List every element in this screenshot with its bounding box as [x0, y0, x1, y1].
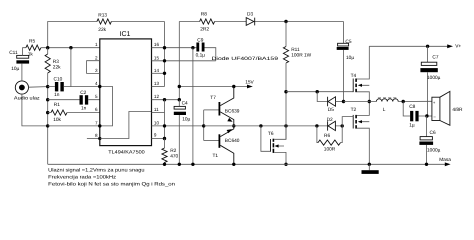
- 15V arrow: [245, 79, 254, 88]
- node T6 source gnd: [284, 163, 287, 166]
- resistor R13: [97, 12, 112, 32]
- wire column 193: [192, 48, 194, 165]
- svg-text:15: 15: [154, 55, 160, 60]
- wire gate row y92: [286, 91, 353, 93]
- svg-text:Fetovi-bilo koji N fet sa sto: Fetovi-bilo koji N fet sa sto manjim Qg …: [48, 181, 175, 187]
- pin numbers right: [154, 42, 160, 138]
- node R5/R3 junction: [46, 46, 49, 49]
- wire pin12 row: [152, 99, 180, 101]
- svg-text:2: 2: [95, 55, 98, 60]
- node C8 tap: [402, 100, 405, 103]
- node pin8 edge: [98, 137, 101, 140]
- svg-text:470: 470: [170, 154, 178, 160]
- transistor T1 BC640: [204, 126, 240, 164]
- svg-text:R8: R8: [201, 12, 207, 18]
- svg-text:4: 4: [95, 81, 98, 86]
- capacitor C7: [420, 46, 440, 116]
- speaker 4/8R: [432, 91, 463, 125]
- node pin7 row: [46, 124, 49, 127]
- svg-text:1n: 1n: [81, 105, 87, 111]
- svg-text:5: 5: [95, 94, 98, 99]
- diode D3: [246, 11, 255, 25]
- svg-text:R3: R3: [53, 59, 59, 65]
- node 193 gnd: [191, 163, 194, 166]
- svg-text:22k: 22k: [53, 65, 61, 71]
- capacitor C5: [337, 22, 355, 102]
- pin numbers left: [95, 42, 98, 138]
- node pin9: [163, 137, 166, 140]
- svg-text:TL494/KA7500: TL494/KA7500: [108, 149, 145, 155]
- node R1 left: [46, 111, 49, 114]
- svg-text:C6: C6: [430, 130, 436, 136]
- svg-text:13: 13: [154, 81, 160, 86]
- svg-text:C7: C7: [432, 54, 438, 60]
- capacitor C2: [80, 90, 89, 111]
- node D2 right: [341, 124, 344, 127]
- inductor L: [376, 98, 398, 113]
- svg-text:11: 11: [154, 107, 159, 112]
- node 286 drive: [284, 124, 287, 127]
- svg-text:3: 3: [95, 68, 98, 73]
- svg-text:Frekvencija rada =100kHz: Frekvencija rada =100kHz: [48, 175, 116, 181]
- transistor T6 mosfet: [261, 126, 286, 164]
- wire pin1 row: [41, 47, 100, 49]
- svg-text:10k: 10k: [53, 117, 61, 123]
- svg-text:D5: D5: [328, 107, 334, 113]
- wire right bracket 16-13: [164, 22, 166, 87]
- node pin7 edge: [98, 124, 101, 127]
- svg-text:7: 7: [95, 120, 98, 125]
- wire column 179 VCC: [178, 22, 180, 100]
- node bases: [202, 124, 205, 127]
- svg-text:15V: 15V: [245, 79, 254, 85]
- wire output row: [344, 100, 432, 102]
- svg-text:D2: D2: [327, 117, 333, 123]
- node C9 left: [191, 46, 194, 49]
- svg-text:T1: T1: [213, 153, 219, 159]
- capacitor C8: [403, 102, 432, 129]
- node pin12/164: [163, 98, 166, 101]
- svg-text:L: L: [383, 107, 386, 113]
- wire V+ rail: [369, 45, 448, 47]
- node pin16: [163, 46, 166, 49]
- svg-text:C9: C9: [197, 37, 203, 43]
- wire pin6 row: [48, 112, 100, 114]
- svg-text:1n: 1n: [54, 92, 60, 98]
- capacitor C4: [174, 100, 191, 165]
- svg-text:1k: 1k: [28, 51, 34, 57]
- node rail/R11: [284, 20, 287, 23]
- wire bases bracket: [203, 110, 205, 141]
- op-amp IC1 box TL494: [100, 31, 152, 155]
- node C4 gnd: [178, 163, 181, 166]
- wire top rail: [48, 22, 344, 48]
- wire audio shield to ground row: [22, 94, 48, 126]
- svg-text:100R: 100R: [324, 146, 336, 152]
- wire right bracket 12-9: [164, 100, 166, 139]
- wire audio pin to node: [29, 86, 48, 89]
- resistor R2: [162, 148, 179, 164]
- resistor R1: [51, 102, 67, 123]
- transistor T2 mosfet: [351, 102, 370, 165]
- transistor T4 mosfet: [351, 46, 370, 101]
- wire pin4 row: [48, 86, 100, 88]
- svg-text:1000µ: 1000µ: [427, 75, 441, 81]
- node C10 row: [46, 85, 49, 88]
- wire pin8 to pin11 inner: [100, 112, 152, 139]
- node T2 gnd: [368, 163, 371, 166]
- wire pin15 row: [152, 60, 216, 62]
- node T6 gate tap: [259, 124, 262, 127]
- svg-text:C5: C5: [345, 39, 351, 45]
- node pin1/C10 riser: [69, 46, 72, 49]
- svg-text:1µ: 1µ: [409, 122, 415, 128]
- wire pin13 stub: [152, 86, 165, 88]
- resistor R8: [200, 12, 215, 33]
- wire C11 to R5: [23, 48, 26, 56]
- resistor R5: [26, 38, 41, 57]
- node R11 bottom: [284, 90, 287, 93]
- text notes: [48, 168, 175, 188]
- node pin15: [163, 59, 166, 62]
- resistor R11: [283, 22, 311, 64]
- wire C9 right riser to pin15: [205, 48, 216, 61]
- wire ground rail: [48, 163, 446, 165]
- svg-text:T6: T6: [268, 131, 274, 137]
- wire D5 riser: [317, 92, 327, 102]
- svg-text:2R2: 2R2: [200, 26, 209, 32]
- audio ulaz connector: [14, 81, 40, 102]
- svg-text:D3: D3: [247, 11, 253, 17]
- wire pin14 stub: [152, 72, 165, 74]
- svg-text:100R 1W: 100R 1W: [291, 52, 311, 58]
- svg-text:BC640: BC640: [225, 138, 240, 144]
- svg-text:8: 8: [95, 133, 98, 138]
- svg-text:−: −: [433, 114, 436, 119]
- node T1 gnd: [232, 163, 235, 166]
- svg-text:R13: R13: [98, 12, 107, 18]
- svg-text:Audio ulaz: Audio ulaz: [14, 95, 40, 101]
- svg-text:C11: C11: [9, 50, 18, 56]
- svg-text:10: 10: [154, 120, 160, 125]
- wire pin2-pin3 loop: [87, 61, 100, 74]
- node output/C5/D5: [342, 100, 345, 103]
- svg-text:T4: T4: [351, 73, 357, 79]
- wire audio top to C11: [21, 64, 23, 81]
- wire pin8 row: [87, 138, 100, 140]
- capacitor C11: [9, 50, 29, 72]
- node C7 top: [426, 45, 429, 48]
- svg-text:10µ: 10µ: [11, 66, 19, 72]
- node D2 left: [315, 124, 318, 127]
- svg-text:16: 16: [154, 42, 160, 47]
- svg-text:Diode UF4007/BA159: Diode UF4007/BA159: [212, 56, 279, 62]
- transistor T7 BC639: [204, 87, 240, 126]
- wire pin4-pin7 inner loop: [100, 87, 113, 126]
- svg-text:IC1: IC1: [120, 31, 131, 38]
- wire pin11 stub: [152, 112, 165, 114]
- svg-text:T7: T7: [210, 95, 216, 101]
- svg-text:C4: C4: [182, 101, 188, 107]
- svg-text:Masa: Masa: [439, 157, 451, 163]
- node pin12/C4: [178, 98, 181, 101]
- node emitters: [232, 124, 235, 127]
- V+ arrow: [447, 43, 461, 49]
- svg-text:C10: C10: [54, 77, 63, 83]
- node T7 collector top: [232, 85, 235, 88]
- svg-text:R11: R11: [291, 47, 300, 53]
- capacitor C6: [419, 116, 440, 164]
- wire riser x70.9: [70, 48, 72, 87]
- wire T2 gate riser: [342, 117, 353, 126]
- node pin10/164: [163, 124, 166, 127]
- wire pin10 row to bases: [152, 125, 204, 127]
- node pin14: [163, 72, 166, 75]
- wire pin9 to R2: [164, 139, 166, 149]
- resistor R3: [45, 54, 61, 73]
- node C6 gnd: [425, 163, 428, 166]
- svg-text:10µ: 10µ: [182, 116, 190, 122]
- svg-text:C2: C2: [80, 90, 86, 96]
- svg-text:4/8R: 4/8R: [452, 107, 463, 113]
- capacitor C10: [54, 77, 64, 99]
- node output T4/T2: [368, 100, 371, 103]
- wire left column: [47, 48, 49, 165]
- capacitor C9: [196, 37, 206, 58]
- diode D2: [327, 117, 336, 131]
- wire drive row y126: [204, 125, 343, 127]
- resistor R6 parallel: [317, 126, 342, 152]
- svg-text:9: 9: [154, 133, 157, 138]
- node 179/86: [178, 85, 181, 88]
- svg-text:R2: R2: [170, 148, 176, 154]
- svg-text:22k: 22k: [98, 27, 106, 33]
- wire 15V row: [179, 86, 248, 88]
- svg-text:1: 1: [95, 42, 98, 47]
- node C6 tap: [425, 114, 428, 117]
- wire pin9 stub: [152, 138, 165, 140]
- node pin5 row: [46, 98, 49, 101]
- svg-text:R5: R5: [29, 38, 35, 44]
- node R2 gnd: [163, 163, 166, 166]
- svg-text:R1: R1: [54, 102, 60, 108]
- svg-text:V+: V+: [455, 43, 461, 49]
- svg-text:Ulazni signal =1,2Vrms za punu: Ulazni signal =1,2Vrms za punu snagu: [48, 168, 145, 174]
- svg-text:C8: C8: [409, 104, 415, 110]
- Masa arrow: [439, 157, 451, 166]
- svg-text:R6: R6: [324, 133, 330, 139]
- wire pin16 row to C9: [152, 47, 197, 49]
- diode D5: [328, 97, 344, 113]
- svg-text:6: 6: [95, 107, 98, 112]
- svg-text:0,1µ: 0,1µ: [196, 52, 206, 58]
- svg-text:BC639: BC639: [225, 108, 240, 114]
- svg-text:T2: T2: [351, 107, 357, 113]
- wire pin5 row: [48, 99, 100, 101]
- svg-text:10µ: 10µ: [346, 55, 354, 61]
- node D5 tap: [316, 90, 319, 93]
- svg-text:14: 14: [154, 68, 160, 73]
- wire R11 column down: [285, 63, 287, 139]
- svg-text:12: 12: [154, 94, 160, 99]
- wire pin7 row: [48, 125, 100, 127]
- node pin4 edge: [98, 85, 101, 88]
- svg-text:1000µ: 1000µ: [427, 148, 441, 154]
- ground symbol: [362, 164, 379, 174]
